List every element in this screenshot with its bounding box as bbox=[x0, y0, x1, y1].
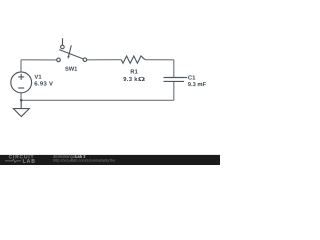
label V1 bbox=[34, 75, 41, 79]
wire R1 to top-right corner bbox=[145, 59, 174, 61]
C1 bottom plate bbox=[164, 80, 185, 82]
V1 plus sign bbox=[18, 74, 24, 80]
switch SW1 bbox=[57, 38, 87, 62]
C1 top plate bbox=[164, 77, 185, 79]
C1 label leader bbox=[184, 77, 187, 79]
value label 9.3 kOhm bbox=[123, 77, 144, 81]
label R1 bbox=[131, 69, 138, 73]
SW1 arm bbox=[59, 50, 83, 59]
wire top-right vertical down to C1 bbox=[173, 60, 175, 78]
ground bbox=[13, 100, 29, 116]
label SW1 bbox=[65, 67, 77, 71]
value label 6.93 V bbox=[35, 81, 53, 85]
V1 minus sign bbox=[18, 87, 24, 89]
CircuitLab logo text LAB bbox=[23, 159, 35, 163]
wire C1 bottom to bottom-right corner bbox=[173, 81, 175, 100]
ground stub bbox=[20, 100, 22, 108]
CircuitLab logo waveform bbox=[5, 159, 21, 162]
value label 9.3 mF bbox=[188, 82, 206, 86]
SW1 upper terminal bbox=[61, 45, 65, 49]
SW1 upper throw stub bbox=[62, 38, 64, 45]
watermark url text bbox=[53, 159, 115, 163]
CircuitLab logo text CIRCUIT bbox=[9, 155, 34, 159]
SW1 left terminal bbox=[57, 58, 61, 62]
wire bottom horizontal bbox=[21, 99, 174, 101]
SW1 right terminal bbox=[83, 58, 87, 62]
voltage source V1 bbox=[11, 72, 32, 93]
wire V1 top vertical bbox=[20, 60, 22, 72]
node junction dot bbox=[20, 99, 23, 102]
wire V1 bottom vertical bbox=[20, 93, 22, 101]
watermark bar bbox=[0, 155, 220, 165]
resistor R1 bbox=[121, 56, 145, 63]
wire SW1 right terminal to R1 bbox=[87, 59, 122, 61]
watermark title text bbox=[53, 155, 77, 159]
wire top-left horizontal to SW1 bbox=[21, 59, 57, 61]
V1 body circle bbox=[11, 72, 32, 93]
SW1 actuator arrow bbox=[69, 45, 72, 56]
ground triangle bbox=[13, 109, 29, 117]
capacitor C1 bbox=[164, 78, 188, 82]
label C1 bbox=[188, 75, 195, 79]
